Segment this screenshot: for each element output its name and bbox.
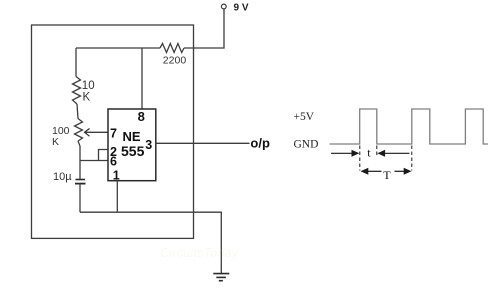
svg-text:7: 7 [110, 126, 117, 140]
svg-text:K: K [52, 136, 59, 148]
svg-text:o/p: o/p [250, 135, 270, 150]
svg-text:T: T [383, 168, 391, 182]
svg-text:555: 555 [121, 143, 145, 159]
svg-text:+5V: +5V [294, 111, 315, 123]
svg-text:K: K [83, 91, 91, 103]
svg-text:NE: NE [123, 129, 141, 144]
svg-text:8: 8 [138, 109, 145, 124]
svg-text:1: 1 [113, 169, 120, 183]
svg-text:10: 10 [82, 80, 95, 92]
svg-text:GND: GND [294, 139, 319, 151]
svg-text:2200: 2200 [163, 54, 187, 66]
svg-text:10µ: 10µ [53, 171, 72, 183]
svg-text:6: 6 [110, 155, 117, 169]
svg-text:3: 3 [145, 138, 152, 152]
svg-text:t: t [367, 145, 371, 159]
svg-text:9 V: 9 V [234, 3, 249, 14]
svg-text:CircuitsToday: CircuitsToday [160, 245, 240, 260]
